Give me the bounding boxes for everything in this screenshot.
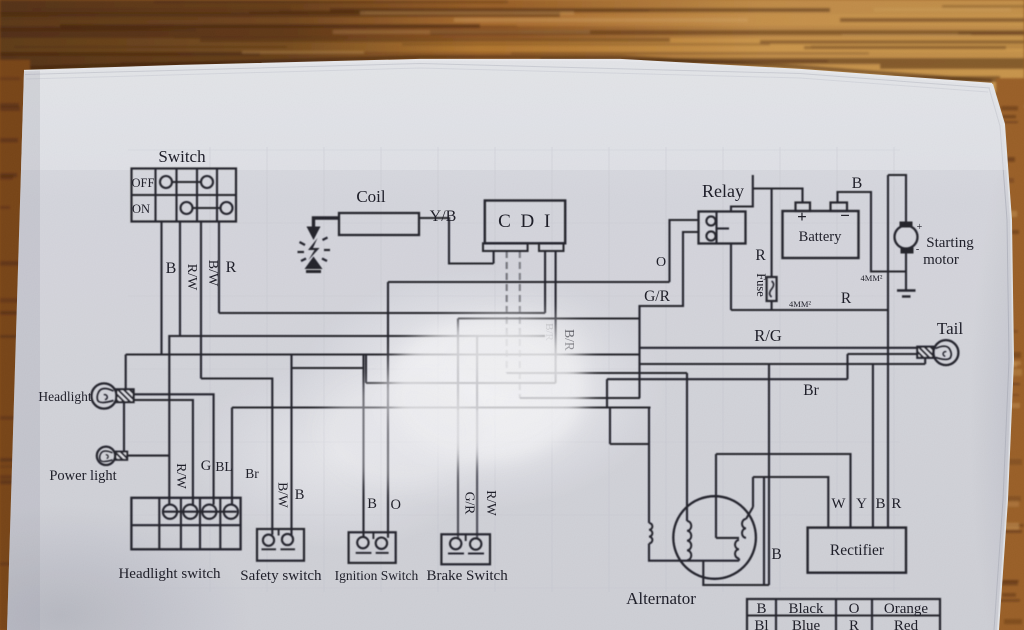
alternator circle xyxy=(673,496,756,579)
spark plug arrow up xyxy=(305,257,323,270)
alternator external coil xyxy=(649,523,652,543)
wire G/R drop to brake switch xyxy=(457,319,459,411)
wire G/R vertical lower xyxy=(638,319,640,399)
CDI connector tabs xyxy=(483,243,528,251)
wire B drop to ignition switch xyxy=(362,355,364,538)
fuse F1 body xyxy=(767,277,777,301)
wire R/G bus xyxy=(640,347,918,349)
faint grid on paper xyxy=(128,147,900,592)
relay inner partition xyxy=(715,212,717,244)
wire G/R drop faded part xyxy=(457,410,459,538)
wire B riser xyxy=(768,364,770,585)
ignition coil T1 box xyxy=(339,213,419,235)
wire motor top loop xyxy=(888,175,906,222)
CDI pin 4 wire xyxy=(544,251,546,313)
rectifier box xyxy=(808,528,906,573)
wire headlight to power light xyxy=(123,402,125,452)
wire alternator bottom out xyxy=(703,561,769,585)
CDI pin 5 wire B/R xyxy=(555,251,557,383)
spark plug arrow down xyxy=(307,227,321,241)
wire R/W bus xyxy=(180,335,545,337)
wire R/W from switch xyxy=(179,222,181,337)
wire O drop to ignition switch xyxy=(387,282,389,538)
wire coil right top lead xyxy=(746,507,753,519)
headlight switch box xyxy=(131,498,240,550)
alternator coil right upper xyxy=(742,519,746,538)
wire B/W bus to safety xyxy=(201,379,272,535)
wire motor right vertical xyxy=(887,175,889,528)
wire bus to alternator coil1 xyxy=(507,372,687,374)
CDI pin 1 wire xyxy=(493,251,495,264)
starter relay box xyxy=(699,212,746,244)
spark symbol xyxy=(308,238,320,260)
wire B/R bus xyxy=(366,382,556,384)
ground symbol xyxy=(897,289,916,292)
wire R/W drop faded xyxy=(476,410,478,539)
tail socket hatched xyxy=(917,347,933,358)
wire relay to battery + xyxy=(753,189,803,203)
tail lamp circle xyxy=(933,340,958,365)
wire motor to ground xyxy=(905,254,907,291)
power light filament xyxy=(100,451,113,462)
circuit drawing xyxy=(91,169,958,630)
wire Y riser xyxy=(715,454,717,538)
wire relay bottom to R bus xyxy=(730,244,732,311)
wire fuse bottom xyxy=(771,301,773,310)
motor brush top xyxy=(900,222,913,228)
wire battery - to motor xyxy=(838,192,907,272)
wire headlight to G xyxy=(134,394,214,504)
wire coil2 riser xyxy=(648,408,650,524)
wire W riser lower xyxy=(763,477,765,585)
wire Br bus upper xyxy=(607,378,848,380)
wire Y/B coil to CDI xyxy=(419,218,494,264)
wire B drop to safety switch xyxy=(290,355,292,535)
alternator coil right lower xyxy=(735,540,739,558)
safety switch box xyxy=(257,529,304,561)
switch OFF row contacts xyxy=(160,176,172,188)
wire Br bus lower xyxy=(232,406,651,408)
wire vert link xyxy=(365,355,367,384)
wire G/R bus xyxy=(458,317,640,319)
wire tail feed 2 xyxy=(848,353,918,355)
wire tail bottom riser xyxy=(924,358,926,364)
wire R from switch xyxy=(218,222,220,314)
battery B1 box xyxy=(783,211,859,258)
CDI pin 2 wire faded xyxy=(506,251,508,373)
wire B long bus xyxy=(640,363,926,365)
wire R/W drop to brake switch xyxy=(476,336,478,410)
relay contact circles xyxy=(706,216,715,225)
CDI pin 3 wire faded xyxy=(519,251,521,398)
wire R bus relay to motor xyxy=(731,309,888,311)
wire coil to spark plug xyxy=(314,218,340,228)
ignition switch box xyxy=(349,532,396,563)
ignition switch contacts xyxy=(357,537,368,548)
legend table box xyxy=(747,599,940,630)
power light lamp circle xyxy=(97,447,115,465)
wire R/W jog to headlight switch xyxy=(169,336,180,505)
alternator coil left xyxy=(687,521,691,560)
wire fuse top xyxy=(771,189,773,278)
wire power light to R/W xyxy=(127,455,169,457)
safety switch contacts xyxy=(263,535,274,546)
wire Br drop to headlight switch xyxy=(231,408,233,505)
wire y398 segment xyxy=(520,397,640,399)
wire external coil bottom xyxy=(649,544,739,561)
battery + terminal xyxy=(796,203,811,212)
wire Y bus xyxy=(716,454,851,528)
wire B/W from switch xyxy=(200,222,202,379)
headlight filament xyxy=(97,389,113,403)
wire alternator riser 1 xyxy=(686,373,688,521)
tail filament xyxy=(935,346,951,359)
starting motor M1 circle xyxy=(895,226,918,249)
wire W top link xyxy=(753,477,828,528)
brake switch box xyxy=(441,534,490,564)
headlight lamp circle xyxy=(91,383,116,408)
wire relay lower G/R xyxy=(640,232,699,319)
wire Br vertical link xyxy=(606,379,608,407)
wire headlight riser xyxy=(125,355,127,390)
wire W riser upper xyxy=(752,477,754,507)
wire Y link xyxy=(716,537,739,539)
wire relay upper to O bus xyxy=(670,220,699,282)
wire y444 stub xyxy=(610,443,649,445)
wire R bus from switch xyxy=(219,312,545,314)
headlight switch contacts xyxy=(163,505,177,519)
glare overlay xyxy=(320,310,588,487)
wire headlight to BL xyxy=(134,400,193,505)
ignition kill switch SW1 box xyxy=(132,169,237,222)
wire O bus xyxy=(388,281,670,283)
motor brush bottom xyxy=(901,248,914,254)
wire double segment xyxy=(292,367,364,369)
brake switch contacts xyxy=(450,538,461,549)
wire relay top xyxy=(731,175,753,212)
headlight socket hatched xyxy=(116,389,133,402)
wire B bus xyxy=(126,353,640,355)
wire B from switch xyxy=(160,222,162,355)
wire B drop to rectifier xyxy=(872,364,874,528)
switch ON row contacts xyxy=(181,202,193,214)
battery - terminal xyxy=(831,203,848,212)
power light socket hatched xyxy=(116,452,128,460)
CDI unit U1 box xyxy=(485,201,565,244)
